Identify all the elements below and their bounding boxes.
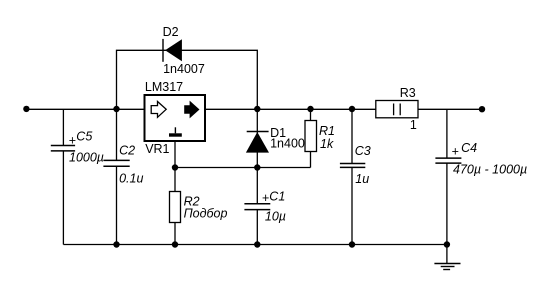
svg-text:+: + bbox=[452, 144, 459, 158]
wire bottom rail bbox=[63, 244, 447, 246]
capacitor C5 bbox=[51, 109, 104, 245]
svg-text:C2: C2 bbox=[119, 144, 135, 158]
node junction top rail / C3 top bbox=[349, 106, 355, 112]
node junction bottom rail / C1 bottom bbox=[254, 241, 260, 247]
resistor R2 bbox=[170, 168, 228, 245]
svg-text:1n4007: 1n4007 bbox=[163, 62, 205, 76]
input terminal bbox=[23, 106, 29, 112]
svg-text:1k: 1k bbox=[320, 137, 334, 151]
resistor R1 bbox=[305, 109, 335, 168]
svg-text:LM317: LM317 bbox=[145, 80, 183, 94]
svg-text:C3: C3 bbox=[355, 144, 371, 158]
node junction ADJ rail / D1 anode / C1 top bbox=[254, 164, 260, 170]
svg-text:D2: D2 bbox=[163, 25, 179, 39]
svg-text:VR1: VR1 bbox=[145, 142, 169, 156]
wire main left bbox=[26, 108, 144, 110]
op-amp U1 / regulator LM317 VR1 bbox=[145, 80, 206, 156]
wire main right bbox=[418, 108, 482, 110]
ground bbox=[434, 245, 460, 270]
svg-text:C4: C4 bbox=[461, 141, 477, 155]
svg-text:Подбор: Подбор bbox=[184, 207, 228, 221]
capacitor C1 bbox=[244, 168, 286, 245]
node junction bottom rail / R2 bottom bbox=[172, 241, 178, 247]
svg-text:+: + bbox=[69, 133, 76, 147]
svg-text:470µ - 1000µ: 470µ - 1000µ bbox=[453, 162, 527, 176]
capacitor C4 bbox=[435, 109, 527, 245]
node junction top rail / D2 cathode side / D1 cathode bbox=[254, 106, 260, 112]
svg-text:R1: R1 bbox=[319, 124, 335, 138]
capacitor C2 bbox=[103, 109, 143, 245]
diode D2 bbox=[163, 25, 205, 76]
node junction top rail / C2 / D2 anode side bbox=[113, 106, 119, 112]
wire main middle bbox=[205, 108, 376, 110]
svg-text:1000µ: 1000µ bbox=[69, 151, 104, 165]
node junction bottom rail / C4 bottom / ground bbox=[444, 241, 450, 247]
wire ADJ pin bbox=[174, 141, 176, 168]
capacitor C3 bbox=[340, 109, 371, 245]
svg-text:R3: R3 bbox=[400, 86, 416, 100]
node junction top rail / R1 top bbox=[307, 106, 313, 112]
wire D2 loop bbox=[117, 50, 258, 109]
wire middle rail (ADJ net) bbox=[175, 167, 311, 169]
svg-text:1u: 1u bbox=[355, 172, 369, 186]
diode D1 bbox=[246, 109, 312, 168]
resistor R3 bbox=[376, 86, 418, 132]
svg-text:C1: C1 bbox=[269, 189, 285, 203]
node junction bottom rail / C2 bottom bbox=[113, 241, 119, 247]
output terminal bbox=[479, 106, 485, 112]
node junction ADJ rail / R2 top bbox=[172, 164, 178, 170]
svg-text:10µ: 10µ bbox=[265, 209, 286, 223]
svg-text:+: + bbox=[262, 191, 269, 205]
node junction bottom rail / C3 bottom bbox=[349, 241, 355, 247]
svg-text:1: 1 bbox=[410, 118, 417, 132]
svg-text:0.1u: 0.1u bbox=[119, 172, 143, 186]
svg-text:C5: C5 bbox=[76, 130, 92, 144]
